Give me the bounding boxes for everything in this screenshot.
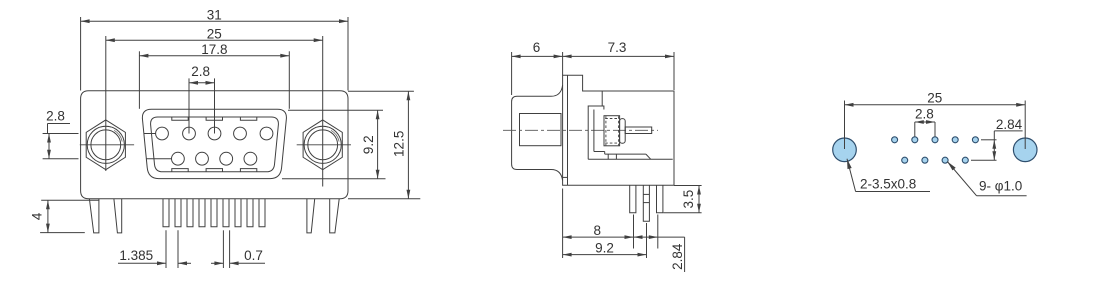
dimension 25 (footprint) extension lines: [845, 101, 1026, 150]
dimension 17.8 extension lines: [139, 51, 289, 109]
dimension 4: [30, 200, 50, 232]
svg-text:1.385: 1.385: [119, 248, 153, 263]
dimension 6 / 7.3 extension lines: [512, 52, 674, 95]
svg-text:2.8: 2.8: [915, 107, 934, 122]
dimension 9.2 (front): [361, 110, 380, 179]
footprint: mounting hole left: [833, 138, 857, 162]
dimension 3.5 extension lines: [664, 186, 702, 213]
svg-text:9.2: 9.2: [595, 240, 614, 255]
row reference stub lines (left): [144, 134, 172, 159]
svg-text:7.3: 7.3: [608, 40, 627, 55]
jack screw hex nut left: [80, 120, 134, 170]
dimension 2.8 (front): [189, 64, 215, 85]
dimension 2.8 (footprint): [915, 107, 935, 124]
board lock legs left: [89, 199, 121, 233]
dimension 2.84 (footprint) extension lines: [971, 131, 1023, 160]
side view: shell inner recess: [520, 114, 562, 146]
dimension 6: [512, 40, 563, 58]
side view: flange fillet tick: [563, 176, 568, 178]
dimension 9.2 (front) extension lines: [282, 110, 386, 179]
dimension 2.8 (footprint) extension lines: [915, 122, 935, 137]
dimension 12.5 extension lines: [348, 91, 420, 199]
svg-text:8: 8: [594, 223, 602, 238]
side view: top slot tick: [601, 91, 603, 106]
dimension 25: [106, 26, 323, 42]
shell contact slots bottom: [172, 169, 188, 172]
svg-text:25: 25: [927, 90, 942, 105]
svg-text:2.8: 2.8: [46, 108, 65, 123]
svg-text:17.8: 17.8: [201, 42, 227, 57]
svg-text:12.5: 12.5: [392, 131, 407, 157]
dimension 17.8: [139, 42, 289, 58]
dimension 1.385: [118, 248, 191, 265]
side view: centreline: [503, 129, 658, 131]
dimension 0.7 extension lines: [223, 230, 229, 268]
footprint: mounting hole right: [1013, 138, 1037, 162]
svg-text:4: 4: [30, 212, 45, 220]
svg-text:25: 25: [207, 26, 222, 41]
svg-text:3.5: 3.5: [681, 190, 696, 209]
side view: solder pin C (rear row): [657, 185, 663, 212]
svg-text:2.84: 2.84: [670, 243, 685, 270]
svg-text:2.8: 2.8: [191, 64, 210, 79]
dimension 31 extension lines: [81, 17, 348, 91]
label 2-3.5x0.8 leader: [847, 159, 930, 192]
contact solder pins (9): [163, 199, 265, 227]
dimension 1.385 extension lines: [166, 230, 178, 268]
jack screw hex nut right: [297, 120, 351, 170]
dimension 2.84 (side, row offset): [634, 235, 685, 272]
svg-text:9.2: 9.2: [361, 135, 376, 154]
dimension 8: [563, 223, 634, 239]
side view: screw insert barrel: [604, 116, 625, 146]
socket holes bottom row (pins 6-9): [172, 152, 185, 165]
side view: D-shell protrusion: [512, 85, 563, 181]
svg-text:2-3.5x0.8: 2-3.5x0.8: [860, 177, 916, 192]
label 9-&#966;1.0 leader: [947, 162, 1026, 196]
dimension 2.8 (row spacing, left) extension lines: [43, 124, 79, 159]
dimension 31: [81, 8, 348, 24]
dimension 3.5: [681, 186, 701, 213]
footprint: pin holes bottom row: [902, 157, 969, 163]
footprint: pin holes top row: [892, 137, 979, 143]
svg-text:0.7: 0.7: [244, 248, 263, 263]
shell contact slots top: [172, 117, 188, 120]
dimension 7.3: [563, 40, 674, 58]
socket holes top row (pins 1-5): [156, 127, 169, 140]
svg-text:9- φ1.0: 9- φ1.0: [979, 178, 1022, 193]
dimension 12.5: [392, 91, 411, 199]
svg-text:2.84: 2.84: [996, 117, 1023, 132]
side view: flange rear face: [567, 75, 569, 185]
side view: contact bracket: [588, 106, 673, 159]
side view: solder pin B (middle): [643, 185, 649, 221]
dimension 25 extension / jack-screw centrelines: [106, 36, 323, 187]
front view: connector flange body: [81, 91, 348, 199]
side view: contact pin: [625, 127, 652, 134]
dimension 2.8 (front, contact pitch) extension lines: [189, 78, 215, 133]
svg-text:31: 31: [207, 8, 222, 23]
dimension 2.84 (footprint): [992, 117, 1022, 160]
D-sub shell outer outline: [142, 109, 286, 178]
svg-text:6: 6: [533, 40, 541, 55]
dimension 0.7: [211, 248, 265, 265]
dimension 2.8 (row spacing, left): [46, 108, 65, 158]
board lock legs right: [307, 199, 339, 233]
side view: body outline: [563, 75, 674, 185]
dimension 9.2 (side): [563, 240, 647, 256]
D-sub shell inner outline: [151, 117, 279, 172]
dimension 25 (footprint): [845, 90, 1026, 106]
side bottom extension lines: [563, 189, 658, 259]
dimension 4 (leg length) extension lines: [40, 200, 99, 232]
side view: solder pin A (front row): [630, 185, 636, 212]
